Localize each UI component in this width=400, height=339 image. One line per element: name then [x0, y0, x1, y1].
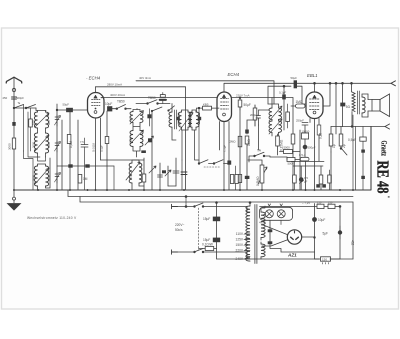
svg-text:150: 150	[317, 201, 322, 205]
svg-text:~ 7,2V: ~ 7,2V	[302, 201, 310, 205]
svg-text:240V: 240V	[236, 257, 244, 261]
svg-text:50c/s: 50c/s	[175, 228, 183, 232]
svg-text:3000: 3000	[32, 142, 36, 148]
svg-text:250pF: 250pF	[296, 119, 304, 123]
svg-text:10000: 10000	[302, 130, 310, 134]
svg-text:15µF: 15µF	[203, 238, 210, 242]
svg-text:100: 100	[32, 120, 36, 125]
svg-text:150: 150	[322, 257, 327, 261]
svg-text:500pF: 500pF	[16, 96, 24, 100]
svg-text:1M: 1M	[83, 177, 88, 181]
svg-text:50µF: 50µF	[291, 76, 298, 80]
svg-text:280V 10mA: 280V 10mA	[107, 83, 122, 87]
svg-text:Graetz: Graetz	[380, 141, 390, 157]
svg-text:400V 40mA: 400V 40mA	[110, 93, 125, 97]
svg-text:0,5µF: 0,5µF	[348, 138, 356, 142]
svg-text:1MΩ: 1MΩ	[247, 139, 251, 146]
svg-text:100: 100	[129, 116, 133, 121]
svg-text:7,5: 7,5	[80, 140, 84, 144]
svg-text:- ECH4: - ECH4	[86, 76, 101, 81]
svg-text:3000: 3000	[47, 142, 51, 148]
svg-text:3000: 3000	[32, 175, 36, 181]
svg-text:3000: 3000	[129, 174, 133, 180]
svg-text:0,2M: 0,2M	[69, 141, 73, 148]
svg-text:5µF: 5µF	[322, 232, 328, 236]
svg-text:50µF: 50µF	[244, 103, 251, 107]
svg-text:250: 250	[328, 201, 333, 205]
svg-text:0,15: 0,15	[319, 133, 323, 139]
svg-text:5Ω: 5Ω	[346, 105, 351, 109]
svg-text:0,1Ω/W: 0,1Ω/W	[202, 243, 213, 247]
svg-text:15µF: 15µF	[203, 217, 210, 221]
svg-text:5000: 5000	[284, 146, 291, 150]
svg-text:0,5-1: 0,5-1	[299, 153, 306, 157]
svg-text:10µF: 10µF	[318, 218, 325, 222]
svg-text:40V 3mA: 40V 3mA	[139, 76, 151, 80]
svg-text:0,1µF: 0,1µF	[99, 145, 103, 152]
svg-text:220V 7mA: 220V 7mA	[236, 94, 250, 98]
svg-text:250: 250	[3, 96, 8, 100]
svg-text:µF: µF	[304, 180, 308, 184]
svg-text:RE 48: RE 48	[374, 161, 393, 194]
svg-text:0,5MΩ: 0,5MΩ	[256, 176, 260, 186]
svg-text:TB50: TB50	[148, 96, 156, 100]
svg-text:7,5µF: 7,5µF	[223, 145, 227, 152]
svg-text:KB5: KB5	[203, 102, 209, 106]
svg-text:600: 600	[188, 121, 192, 126]
svg-text:220V: 220V	[236, 248, 244, 252]
svg-text:Si 5118: Si 5118	[91, 143, 95, 152]
svg-text:2µ: 2µ	[342, 144, 346, 148]
svg-text:150V: 150V	[236, 243, 244, 247]
svg-text:0,1µF: 0,1µF	[279, 91, 286, 95]
svg-text:200pF: 200pF	[250, 113, 258, 117]
svg-text:3000: 3000	[47, 175, 51, 181]
svg-text:4V2A: 4V2A	[259, 221, 266, 225]
svg-text:1MΩ: 1MΩ	[296, 100, 303, 104]
svg-text:500pF: 500pF	[308, 146, 316, 150]
svg-text:5000: 5000	[288, 162, 295, 166]
svg-text:2MΩ: 2MΩ	[230, 140, 236, 144]
svg-text:Wechselstromnetz 110-240 V: Wechselstromnetz 110-240 V	[27, 216, 77, 220]
svg-text:TB50: TB50	[117, 100, 125, 104]
svg-text:50µF: 50µF	[63, 103, 70, 107]
svg-text:10µF: 10µF	[105, 102, 112, 106]
svg-text:300: 300	[47, 120, 51, 125]
svg-text:ECH4: ECH4	[228, 72, 240, 77]
svg-text:220V~: 220V~	[175, 223, 184, 227]
svg-text:AZ1: AZ1	[287, 253, 297, 258]
svg-text:110V: 110V	[236, 232, 244, 236]
svg-text:432: 432	[351, 240, 355, 246]
svg-text:3000: 3000	[129, 137, 133, 143]
svg-text:600: 600	[177, 121, 181, 126]
svg-text:EBL1: EBL1	[307, 73, 318, 78]
svg-text:125V: 125V	[236, 237, 244, 241]
svg-text:1µ: 1µ	[332, 144, 336, 148]
svg-text:3000: 3000	[8, 143, 12, 150]
